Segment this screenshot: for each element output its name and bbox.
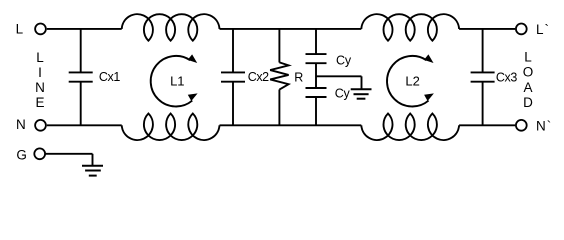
svg-text:L1: L1 [170, 74, 184, 89]
svg-text:R: R [294, 70, 303, 84]
svg-text:E: E [35, 95, 44, 110]
svg-text:Cx1: Cx1 [99, 70, 120, 84]
svg-text:Cy: Cy [336, 53, 352, 67]
svg-text:Cy: Cy [335, 86, 351, 100]
svg-text:D: D [523, 95, 533, 110]
svg-text:A: A [523, 80, 532, 95]
svg-text:N`: N` [536, 119, 552, 134]
svg-text:L2: L2 [405, 74, 419, 89]
svg-text:Cx3: Cx3 [496, 70, 517, 84]
svg-text:L: L [36, 50, 44, 65]
svg-text:L: L [524, 50, 532, 65]
svg-text:Cx2: Cx2 [248, 70, 269, 84]
svg-text:L`: L` [536, 22, 550, 37]
svg-text:G: G [16, 147, 27, 162]
svg-text:L: L [16, 22, 24, 37]
svg-text:I: I [38, 65, 42, 80]
svg-text:N: N [16, 117, 26, 132]
svg-text:N: N [35, 80, 45, 95]
svg-text:O: O [523, 65, 534, 80]
